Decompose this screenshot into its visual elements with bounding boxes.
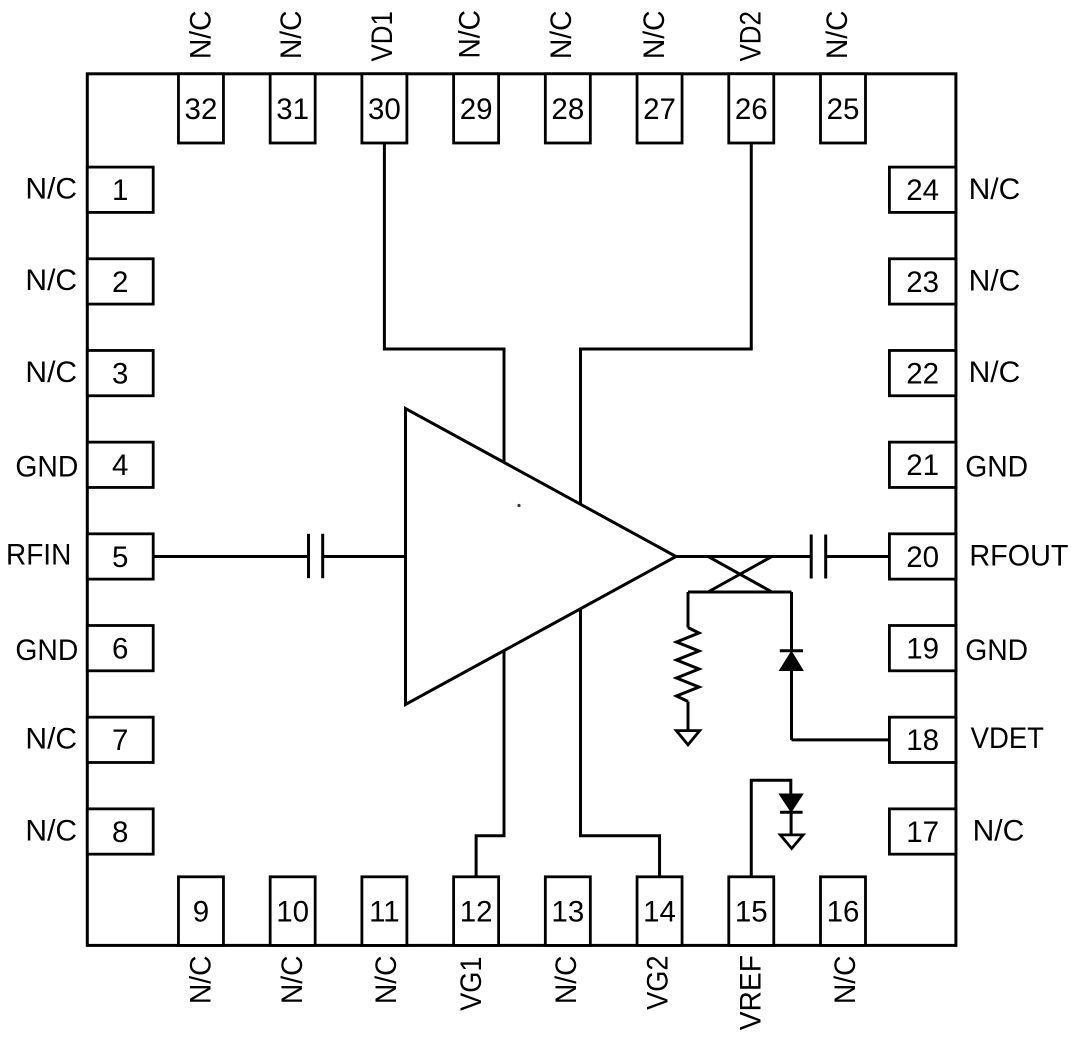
svg-text:7: 7 xyxy=(112,724,128,757)
svg-text:N/C: N/C xyxy=(184,956,217,1005)
svg-text:GND: GND xyxy=(965,450,1028,483)
svg-text:GND: GND xyxy=(15,634,78,667)
svg-text:3: 3 xyxy=(112,358,128,391)
svg-text:5: 5 xyxy=(112,541,128,574)
svg-text:GND: GND xyxy=(15,450,78,483)
svg-text:N/C: N/C xyxy=(969,356,1021,389)
svg-text:RFIN: RFIN xyxy=(6,539,71,572)
svg-text:13: 13 xyxy=(551,896,584,929)
svg-text:8: 8 xyxy=(112,816,128,849)
svg-text:23: 23 xyxy=(906,266,939,299)
svg-text:N/C: N/C xyxy=(969,264,1021,297)
svg-text:N/C: N/C xyxy=(25,814,77,847)
svg-text:N/C: N/C xyxy=(969,173,1021,206)
svg-text:19: 19 xyxy=(906,633,939,666)
svg-text:11: 11 xyxy=(369,896,400,929)
svg-text:N/C: N/C xyxy=(25,723,77,756)
svg-text:N/C: N/C xyxy=(973,815,1025,848)
svg-text:29: 29 xyxy=(460,93,493,126)
svg-text:22: 22 xyxy=(906,358,939,391)
svg-text:N/C: N/C xyxy=(545,11,578,60)
svg-text:VDET: VDET xyxy=(971,722,1044,755)
svg-text:N/C: N/C xyxy=(638,11,671,60)
svg-text:N/C: N/C xyxy=(370,956,403,1005)
svg-text:N/C: N/C xyxy=(453,10,486,59)
svg-text:32: 32 xyxy=(185,93,218,126)
svg-text:20: 20 xyxy=(906,541,939,574)
svg-text:31: 31 xyxy=(276,93,309,126)
svg-text:16: 16 xyxy=(827,896,860,929)
svg-text:RFOUT: RFOUT xyxy=(969,539,1068,572)
svg-text:N/C: N/C xyxy=(275,11,308,60)
svg-text:N/C: N/C xyxy=(821,11,854,60)
svg-text:N/C: N/C xyxy=(550,956,583,1005)
svg-text:9: 9 xyxy=(193,896,209,929)
svg-text:N/C: N/C xyxy=(25,356,77,389)
svg-text:21: 21 xyxy=(906,449,939,482)
svg-text:4: 4 xyxy=(112,449,128,482)
svg-text:GND: GND xyxy=(965,634,1028,667)
svg-text:17: 17 xyxy=(906,816,939,849)
svg-text:30: 30 xyxy=(368,93,401,126)
svg-text:28: 28 xyxy=(551,93,584,126)
svg-text:VD1: VD1 xyxy=(366,11,399,62)
svg-text:18: 18 xyxy=(906,724,939,757)
svg-text:26: 26 xyxy=(735,93,768,126)
svg-text:27: 27 xyxy=(643,93,676,126)
svg-text:24: 24 xyxy=(906,174,939,207)
svg-text:VG2: VG2 xyxy=(641,956,674,1010)
svg-text:2: 2 xyxy=(112,266,128,299)
svg-text:VD2: VD2 xyxy=(734,11,767,62)
svg-text:N/C: N/C xyxy=(276,956,309,1005)
svg-text:12: 12 xyxy=(460,896,493,929)
svg-text:14: 14 xyxy=(643,896,676,929)
svg-text:10: 10 xyxy=(276,896,309,929)
svg-text:N/C: N/C xyxy=(25,264,77,297)
svg-text:VREF: VREF xyxy=(734,955,767,1030)
svg-text:N/C: N/C xyxy=(829,956,862,1005)
svg-text:N/C: N/C xyxy=(184,10,217,59)
svg-text:6: 6 xyxy=(112,633,128,666)
svg-text:1: 1 xyxy=(112,174,128,207)
svg-text:15: 15 xyxy=(735,896,768,929)
svg-text:VG1: VG1 xyxy=(455,957,488,1011)
svg-text:N/C: N/C xyxy=(25,173,77,206)
svg-text:25: 25 xyxy=(827,93,860,126)
